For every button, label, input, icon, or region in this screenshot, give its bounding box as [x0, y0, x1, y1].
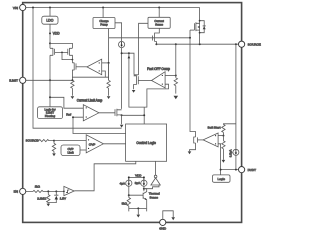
node A3 plus: [175, 75, 177, 77]
node ILIMIT resistor top: [71, 79, 73, 81]
wire divider to OVP plus: [54, 140, 86, 142]
resistor R9: [222, 136, 225, 160]
wire LDO to VDD node: [49, 24, 51, 43]
wire A7 minus to DVDT: [218, 144, 238, 170]
svg-text:SOURCE: SOURCE: [26, 139, 39, 143]
comparator A5 EN buffer: [63, 186, 74, 195]
ILIMIT wire: [26, 79, 72, 81]
svg-text:SOURCE: SOURCE: [248, 42, 261, 46]
resistor R3 fast-off divider: [174, 76, 177, 94]
wire EN buffer out to control logic: [74, 161, 135, 191]
svg-text:OVP: OVP: [89, 142, 96, 146]
node M4 source: [121, 114, 123, 116]
wire 4uA to thermal BJT base: [129, 186, 143, 195]
svg-text:Sense: Sense: [150, 196, 159, 200]
wire LDO top riser: [49, 8, 51, 17]
resistor R1 (ILIMIT set): [71, 80, 74, 95]
wire mid node left drop (to CL clamp transistor drain): [121, 53, 123, 109]
resistor R7 8k: [127, 195, 130, 211]
node logic box tee: [49, 96, 51, 98]
resistor R8: [222, 124, 225, 135]
ground arrow M5: [132, 90, 136, 93]
resistor R5 divider lower: [52, 141, 55, 154]
node soft start plus: [222, 135, 224, 137]
source line: [156, 43, 238, 45]
transistor M6 soft start clamp: [190, 136, 198, 152]
svg-text:Sense: Sense: [155, 22, 163, 26]
terminal EN: [14, 188, 26, 194]
op-amp A1 (gate amp, points left): [87, 59, 102, 74]
current sense U3 box: [148, 17, 170, 28]
terminal VIN: [13, 4, 26, 10]
wire A7 plus: [218, 135, 223, 137]
node mid center: [128, 52, 130, 54]
wire A3 plus input: [165, 75, 176, 77]
ground arrow R2: [107, 96, 111, 99]
svg-text:Ref: Ref: [66, 113, 71, 117]
inverter A6 thermal: [144, 161, 160, 188]
transistor M5 fast-off pulldown: [134, 75, 152, 90]
ground arrow R1: [71, 96, 75, 99]
terminal SOURCE: [239, 41, 261, 47]
ground arrow EN: [47, 204, 51, 207]
comparator A4 OVP (points right): [86, 135, 103, 153]
IC outer border: [23, 3, 242, 223]
zener D1 1.5V: [48, 191, 58, 202]
ground arrow R3 (large): [174, 96, 179, 99]
soft start divider from source: [223, 44, 236, 149]
svg-text:VDD: VDD: [135, 174, 142, 178]
logic for ILIMIT floating box: [38, 107, 63, 119]
ground bus bottom: [129, 207, 147, 209]
transistor Q2 thermal sense BJT: [143, 189, 147, 212]
node ref: [72, 116, 74, 118]
node gate line join: [189, 37, 191, 39]
node mid left: [121, 52, 123, 54]
ground arrow R9: [222, 160, 226, 163]
wire VIN sense drop to OVP bus: [33, 8, 122, 129]
svg-text:Current Limit Amp: Current Limit Amp: [77, 98, 103, 102]
svg-text:Control Logic: Control Logic: [136, 141, 156, 145]
node VIN-rail/charge-pump: [102, 7, 104, 9]
op-amp A2 current limit amp (points right): [83, 105, 99, 121]
node EN 1: [47, 190, 49, 192]
op-amp A7 soft start (points left): [203, 133, 218, 147]
node mirror drain: [72, 59, 74, 61]
svg-text:4μA: 4μA: [120, 181, 125, 185]
svg-text:ILIMIT: ILIMIT: [9, 79, 18, 83]
arrow up on wire: [128, 55, 131, 58]
wire GND pin loop: [163, 211, 173, 220]
svg-text:1kΩ: 1kΩ: [35, 184, 41, 188]
wire A7 out to clamp gate: [198, 139, 204, 141]
node A1 plus: [108, 62, 110, 64]
node ILIMIT/LDO drain: [49, 79, 51, 81]
node 4uA base junction: [128, 194, 130, 196]
svg-text:VIN: VIN: [13, 6, 18, 10]
node source sense riser: [235, 43, 237, 45]
OVP limit box: [61, 145, 80, 156]
svg-text:VDD: VDD: [53, 32, 60, 36]
svg-text:EN: EN: [14, 190, 18, 194]
terminal DVDT: [239, 167, 257, 173]
node VDD left: [128, 176, 130, 178]
svg-text:Floating: Floating: [45, 114, 56, 118]
svg-text:2.2MΩ: 2.2MΩ: [37, 197, 47, 201]
wire charge pump right output to current source: [115, 23, 122, 42]
svg-text:Pump: Pump: [100, 23, 108, 27]
wire current sense top riser: [158, 8, 160, 18]
node divider: [53, 140, 55, 142]
wire LDO drain to logic box and amp B plus: [50, 80, 83, 108]
wire OVP out to control logic: [103, 143, 125, 145]
svg-text:8kΩ: 8kΩ: [122, 202, 128, 206]
svg-text:Fast OFF Comp: Fast OFF Comp: [147, 67, 170, 71]
wire current sense bottom jog to sense FET: [155, 28, 160, 34]
wire charge pump top riser: [102, 8, 104, 18]
node thermal: [143, 188, 145, 190]
node gate tie: [61, 52, 63, 54]
wire current source to mid node: [122, 48, 134, 75]
LDO U1 box: [42, 16, 58, 24]
node FET source: [199, 43, 201, 45]
svg-text:LDO: LDO: [46, 19, 53, 23]
wire A3 minus loop to control riser: [144, 84, 168, 107]
comparator A3 fast off (points left): [152, 72, 166, 88]
node VDD right: [143, 176, 145, 178]
wire current sense left to fast-off NMOS: [139, 23, 148, 75]
wire I4 to DVDT line: [235, 155, 237, 169]
terminal ILIMIT: [9, 77, 26, 83]
svg-text:DVDT: DVDT: [248, 168, 257, 172]
transistor Q1 main pass FET with body diode: [190, 8, 206, 45]
svg-text:Soft Start: Soft Start: [208, 126, 221, 130]
node EN 2: [55, 190, 57, 192]
node VIN-rail/current-sense: [158, 7, 160, 9]
current source I3 8uA: [141, 177, 147, 186]
wire bus arrow drop: [137, 208, 139, 214]
terminal GND: [159, 219, 167, 230]
wire OVP limit to minus: [80, 149, 86, 151]
transistor sense FET: [153, 35, 157, 45]
node VIN-rail/LDO: [49, 7, 51, 9]
wire PMOS gate tie: [55, 52, 73, 59]
svg-text:Limit: Limit: [67, 150, 73, 154]
node VIN-rail/left drop: [32, 7, 34, 9]
node DVDT: [235, 169, 237, 171]
VDD rail bottom: [129, 176, 144, 178]
resistor R6 2.2M: [47, 191, 50, 203]
wire M4 source to control logic riser: [122, 107, 145, 124]
charge pump U2 box: [93, 18, 115, 29]
node fast-off divider tee: [175, 43, 177, 45]
transistor M4 CL clamp: [99, 109, 122, 117]
svg-text:6.5μA: 6.5μA: [228, 150, 232, 158]
wire fast-off divider from source line: [175, 44, 177, 75]
current source I4 6.5uA: [233, 149, 239, 155]
wire charge pump bottom riser / gate tee: [108, 29, 110, 81]
wire A1 minus loop: [72, 71, 108, 77]
node bus arrow drop: [137, 207, 139, 209]
control logic box: [126, 124, 167, 161]
wire 8uA to node: [143, 186, 145, 191]
svg-text:GND: GND: [159, 226, 167, 230]
node riser: [143, 114, 145, 116]
svg-text:8μA: 8μA: [135, 181, 140, 185]
ground arrow M6: [188, 151, 192, 154]
EN input network: [26, 190, 64, 192]
node VDD: [49, 32, 51, 34]
wire mid drop with up arrow to control logic riser: [129, 53, 144, 107]
node sense FET source: [155, 43, 157, 45]
current source I1 (charge pump leg): [119, 41, 125, 47]
transistor M3 cascode NMOS: [72, 60, 87, 81]
wire gate drive line: [109, 37, 190, 39]
node PMOS rail tee: [49, 42, 51, 44]
svg-text:Logic: Logic: [217, 177, 225, 181]
wire A1 plus input: [102, 62, 109, 64]
wire main FET gate riser down to soft start clamp: [190, 30, 196, 135]
svg-text:1.5V: 1.5V: [60, 196, 66, 200]
wire A2 minus / Ref line: [73, 117, 126, 133]
resistor R2 (ref leg): [107, 63, 110, 96]
ground arrow R5: [52, 153, 56, 156]
wire M4 source arrow to VIN bus: [121, 115, 123, 124]
current source I2 4uA: [126, 177, 132, 186]
transistor M2 PMOS mirror right: [50, 43, 72, 59]
wire logic riser: [220, 170, 222, 175]
wire VIN top rail: [23, 7, 200, 9]
transistor M1 PMOS mirror left: [50, 43, 55, 80]
logic box: [213, 175, 231, 182]
